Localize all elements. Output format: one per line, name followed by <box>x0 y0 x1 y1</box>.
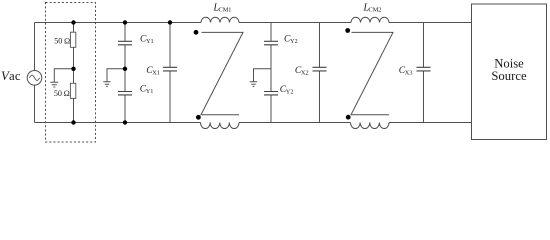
svg-text:Vac: Vac <box>1 69 21 83</box>
wire CY2 ground stub <box>254 69 272 82</box>
source Vac <box>27 71 42 86</box>
node LCM1 phase dot bottom <box>196 115 201 120</box>
wire Vac branch <box>34 23 36 123</box>
resistor R-bottom 50Ω <box>70 83 75 98</box>
svg-text:Y1: Y1 <box>146 38 154 45</box>
wire top rail <box>35 22 472 24</box>
LISN dashed box <box>46 3 96 143</box>
node LCM1 phase dot top <box>194 30 199 35</box>
svg-text:CM2: CM2 <box>369 7 382 14</box>
label LCM1 <box>213 3 232 14</box>
svg-text:Y2: Y2 <box>286 88 294 95</box>
node CY1 bottom <box>123 120 127 124</box>
capacitor CY1 top <box>118 41 132 45</box>
ground CY1 <box>103 82 110 87</box>
label Noise Source <box>491 56 527 83</box>
wire CY1 branch <box>124 23 126 123</box>
svg-text:X3: X3 <box>405 69 413 76</box>
wire resistor branch <box>73 23 75 123</box>
ground LISN <box>50 82 58 87</box>
core LCM2 Z-bar <box>351 32 393 114</box>
node resistor mid <box>71 67 75 71</box>
svg-text:X1: X1 <box>152 69 160 76</box>
node LCM2 phase dot top <box>345 28 350 33</box>
capacitor CX1 <box>163 67 177 71</box>
core LCM1 Z-bar <box>201 32 243 114</box>
svg-text:Source: Source <box>491 69 527 83</box>
svg-text:50 Ω: 50 Ω <box>54 89 70 98</box>
node resistor bottom <box>71 120 75 124</box>
capacitor CX2 <box>313 67 327 71</box>
label CY1 top <box>140 34 154 45</box>
wire CY1 ground stub <box>107 69 125 82</box>
inductor LCM1 top winding <box>201 17 239 22</box>
node LCM2 phase dot bottom <box>346 115 351 120</box>
label CY2 bottom <box>280 85 294 96</box>
capacitor CY2 top <box>264 41 278 45</box>
wire CX1 branch <box>169 23 171 123</box>
label Vac <box>1 69 21 83</box>
svg-text:X2: X2 <box>301 69 309 76</box>
label CX1 <box>146 66 160 77</box>
capacitor CY1 bottom <box>118 92 132 95</box>
wire CY2 branch <box>270 23 272 123</box>
resistor R-top 50Ω <box>70 32 75 47</box>
node CX1 top <box>168 20 172 24</box>
label LCM2 <box>363 3 382 14</box>
node CY1 top <box>123 20 127 24</box>
label 50Ω bottom <box>54 89 70 98</box>
svg-text:Y1: Y1 <box>146 88 154 95</box>
ground CY2 <box>250 82 257 87</box>
inductor LCM2 top winding <box>351 17 389 22</box>
wire CX2 branch <box>319 23 321 123</box>
label 50Ω top <box>54 36 70 45</box>
noise source box <box>472 4 547 140</box>
label CX3 <box>399 66 413 77</box>
label CY1 bottom <box>140 84 154 95</box>
node CY1 mid <box>123 67 127 71</box>
svg-text:50 Ω: 50 Ω <box>54 36 70 45</box>
label CY2 top <box>284 34 298 45</box>
capacitor CY2 bottom <box>264 92 278 95</box>
capacitor CX3 <box>417 67 431 71</box>
node resistor top <box>71 20 75 24</box>
svg-text:CM1: CM1 <box>219 7 232 14</box>
wire bottom rail <box>35 122 472 124</box>
wire LISN ground stub <box>54 69 73 83</box>
label CX2 <box>295 66 309 77</box>
inductor LCM1 bottom winding <box>201 123 240 129</box>
svg-text:Y2: Y2 <box>290 38 298 45</box>
wire CX3 branch <box>423 23 425 123</box>
inductor LCM2 bottom winding <box>351 123 390 129</box>
